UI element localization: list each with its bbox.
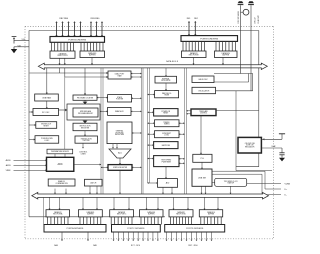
svg-text:VREF: VREF (6, 170, 12, 172)
svg-text:RD7 : RD0: RD7 : RD0 (188, 245, 197, 247)
svg-text:RA5: RA5 (93, 244, 97, 247)
svg-text:TIMER1: TIMER1 (164, 124, 170, 126)
svg-text:RB3:RB0: RB3:RB0 (91, 18, 101, 20)
svg-text:REGISTERS: REGISTERS (115, 134, 124, 136)
svg-text:BUFFER: BUFFER (87, 214, 94, 216)
svg-text:PORTE DRIVERS: PORTE DRIVERS (200, 39, 218, 41)
svg-text:D-: D- (285, 195, 287, 197)
svg-text:CLKOUT: CLKOUT (258, 15, 260, 24)
svg-text:EEPROM: EEPROM (162, 145, 171, 147)
svg-text:LOGIC: LOGIC (44, 140, 50, 142)
svg-text:PORTB DRIVERS: PORTB DRIVERS (68, 40, 86, 42)
svg-text:CALIB OSC: CALIB OSC (198, 78, 208, 81)
svg-text:RE2: RE2 (194, 18, 198, 20)
svg-text:PORTD DRIVERS: PORTD DRIVERS (186, 228, 204, 230)
svg-text:VUSB: VUSB (285, 183, 291, 185)
svg-text:RA4: RA4 (54, 244, 58, 247)
svg-text:OSCILLATOR: OSCILLATOR (198, 89, 210, 92)
svg-text:AVDD: AVDD (6, 159, 12, 162)
svg-text:BUFFER: BUFFER (208, 214, 215, 216)
svg-text:OSC1/CLKIN: OSC1/CLKIN (238, 11, 240, 24)
svg-text:TIMER: TIMER (164, 95, 170, 97)
svg-text:ALU: ALU (118, 152, 122, 155)
svg-text:RESET: RESET (163, 113, 168, 115)
svg-text:A/D: A/D (166, 182, 170, 185)
svg-text:AVSS: AVSS (6, 164, 12, 167)
svg-text:REGISTER: REGISTER (81, 127, 90, 129)
svg-text:BROWN-OUT: BROWN-OUT (41, 124, 51, 126)
svg-text:ADC: ADC (57, 163, 62, 166)
svg-text:CONTROL: CONTROL (200, 113, 207, 115)
svg-text:RE1: RE1 (187, 18, 191, 20)
svg-text:PORTA DRIVERS: PORTA DRIVERS (67, 227, 84, 230)
svg-text:POWER-DOWN: POWER-DOWN (41, 138, 53, 140)
svg-text:BUFFER: BUFFER (148, 214, 155, 216)
svg-text:RAM MUX: RAM MUX (115, 110, 124, 113)
svg-text:USB SIE: USB SIE (198, 178, 207, 180)
svg-text:INSTRUCTION: INSTRUCTION (81, 138, 93, 140)
svg-text:REG PORTB: REG PORTB (58, 55, 69, 57)
svg-text:REG PORTD: REG PORTD (176, 214, 186, 216)
svg-text:BUFFER: BUFFER (89, 55, 97, 57)
svg-text:OSC2/: OSC2/ (255, 17, 257, 24)
svg-text:INSTRUCTION: INSTRUCTION (80, 126, 92, 128)
svg-text:REG PORTC: REG PORTC (117, 214, 127, 216)
svg-text:PWM/TIMER: PWM/TIMER (162, 161, 172, 163)
svg-text:RC7 : RC0: RC7 : RC0 (131, 245, 140, 247)
svg-text:PURPOSE: PURPOSE (116, 132, 124, 134)
svg-text:LATCH: LATCH (90, 181, 97, 184)
svg-text:REG PORTE: REG PORTE (189, 55, 200, 57)
svg-text:RC OSC: RC OSC (42, 112, 50, 114)
svg-text:USB RAM: USB RAM (42, 97, 51, 100)
svg-text:BUFFER: BUFFER (222, 55, 230, 57)
svg-text:RESET: RESET (44, 125, 49, 127)
svg-text:POINTER: POINTER (116, 99, 124, 101)
svg-text:HIGH SPEED: HIGH SPEED (161, 160, 172, 162)
svg-text:RB7:RB4: RB7:RB4 (59, 18, 69, 20)
svg-text:DATA BUS 8: DATA BUS 8 (166, 60, 179, 63)
svg-text:VDD: VDD (22, 39, 25, 41)
svg-text:RAM: RAM (118, 75, 122, 78)
svg-text:DECODE: DECODE (83, 140, 90, 142)
svg-text:LINES: LINES (81, 153, 87, 155)
svg-text:PORTC DRIVERS: PORTC DRIVERS (127, 228, 145, 230)
